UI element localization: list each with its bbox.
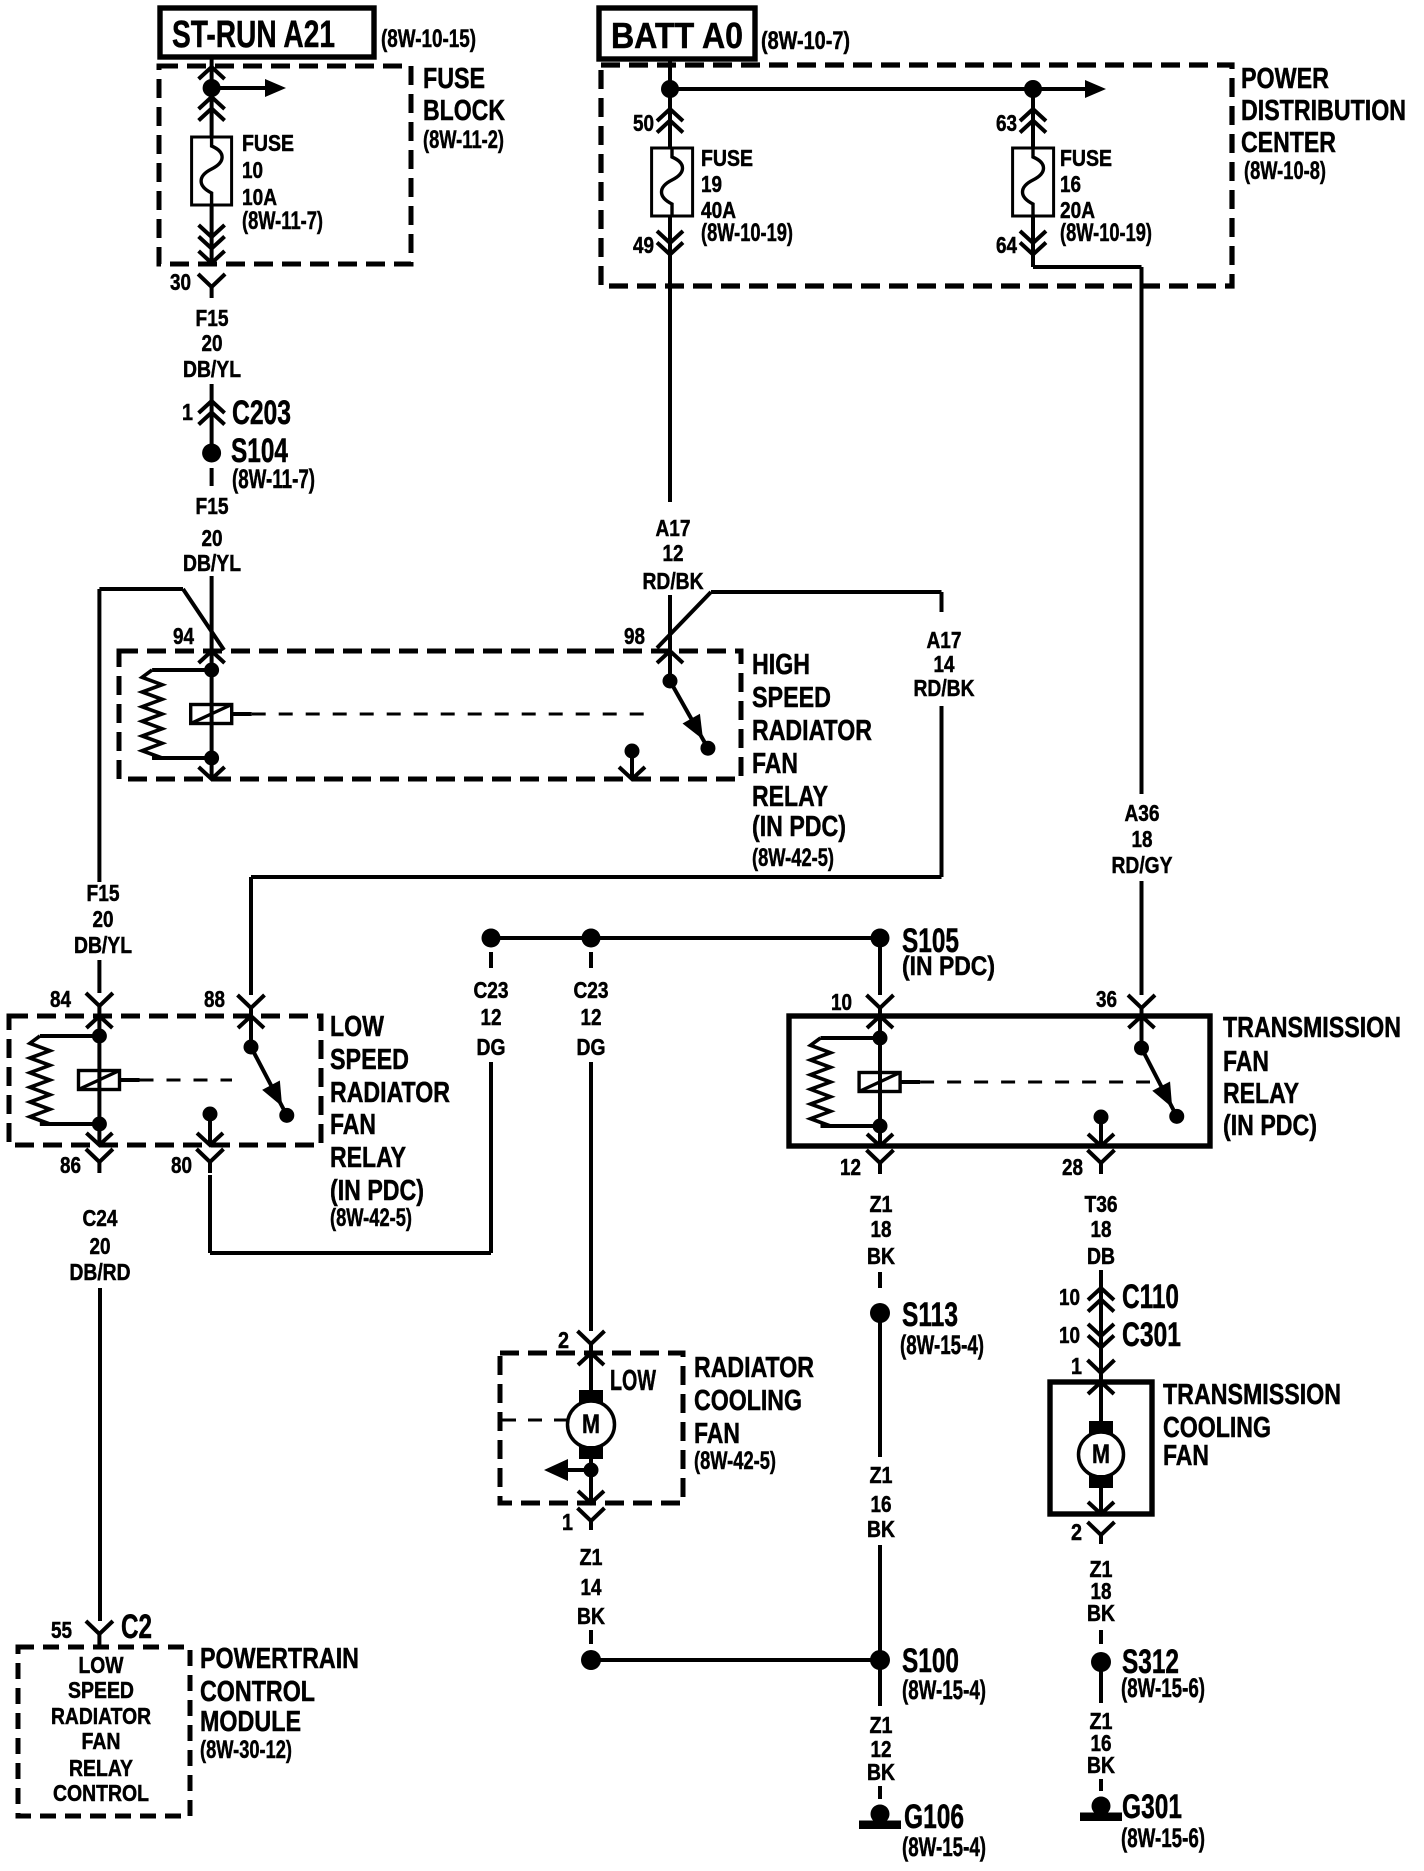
svg-text:F15: F15: [196, 305, 229, 331]
svg-text:TRANSMISSION: TRANSMISSION: [1163, 1379, 1341, 1411]
svg-text:RD/BK: RD/BK: [914, 675, 975, 701]
svg-text:S113: S113: [902, 1296, 958, 1334]
svg-text:55: 55: [51, 1617, 72, 1643]
svg-text:SPEED: SPEED: [330, 1044, 409, 1076]
svg-text:M: M: [1092, 1439, 1110, 1469]
svg-text:LOW: LOW: [610, 1365, 656, 1397]
svg-text:RD/GY: RD/GY: [1112, 852, 1173, 878]
svg-text:(8W-10-19): (8W-10-19): [1060, 219, 1152, 247]
svg-text:TRANSMISSION: TRANSMISSION: [1223, 1012, 1401, 1044]
svg-text:1: 1: [182, 399, 193, 425]
svg-text:BK: BK: [867, 1243, 895, 1269]
svg-text:DB: DB: [1087, 1243, 1115, 1269]
svg-text:C110: C110: [1122, 1278, 1179, 1316]
svg-text:Z1: Z1: [870, 1712, 893, 1738]
svg-text:COOLING: COOLING: [694, 1385, 802, 1417]
svg-text:2: 2: [1071, 1519, 1082, 1545]
svg-text:BK: BK: [1087, 1600, 1115, 1626]
svg-text:(8W-10-8): (8W-10-8): [1244, 157, 1326, 185]
svg-text:(8W-10-15): (8W-10-15): [381, 25, 476, 53]
svg-text:FAN: FAN: [694, 1418, 740, 1450]
svg-text:RD/BK: RD/BK: [643, 568, 704, 594]
svg-text:(8W-15-4): (8W-15-4): [902, 1832, 986, 1862]
svg-text:16: 16: [871, 1491, 892, 1517]
svg-text:10: 10: [1059, 1284, 1080, 1310]
svg-text:12: 12: [663, 540, 684, 566]
svg-text:(8W-11-7): (8W-11-7): [242, 207, 323, 235]
svg-text:36: 36: [1096, 986, 1117, 1012]
svg-text:RADIATOR: RADIATOR: [330, 1077, 450, 1109]
svg-text:CONTROL: CONTROL: [200, 1676, 315, 1708]
svg-text:FAN: FAN: [82, 1728, 121, 1754]
svg-text:(8W-11-2): (8W-11-2): [423, 126, 504, 154]
svg-text:20: 20: [202, 330, 223, 356]
svg-text:(8W-42-5): (8W-42-5): [752, 844, 834, 872]
svg-text:F15: F15: [196, 493, 229, 519]
svg-text:20: 20: [93, 906, 114, 932]
svg-text:C203: C203: [232, 394, 291, 432]
svg-text:C2: C2: [121, 1608, 152, 1646]
svg-text:80: 80: [171, 1152, 192, 1178]
svg-text:18: 18: [871, 1216, 892, 1242]
svg-text:FAN: FAN: [1163, 1440, 1209, 1472]
svg-text:DG: DG: [577, 1034, 606, 1060]
svg-text:BK: BK: [867, 1516, 895, 1542]
svg-text:94: 94: [173, 623, 194, 649]
svg-text:14: 14: [581, 1574, 602, 1600]
svg-text:G301: G301: [1122, 1788, 1182, 1826]
svg-text:DB/YL: DB/YL: [183, 550, 241, 576]
svg-text:CONTROL: CONTROL: [53, 1780, 149, 1806]
svg-text:BK: BK: [577, 1603, 605, 1629]
svg-text:BK: BK: [867, 1759, 895, 1785]
svg-text:(IN PDC): (IN PDC): [1223, 1110, 1317, 1142]
svg-text:RADIATOR: RADIATOR: [51, 1703, 151, 1729]
svg-text:C301: C301: [1122, 1316, 1181, 1354]
svg-text:C23: C23: [474, 977, 509, 1003]
svg-text:LOW: LOW: [330, 1011, 384, 1043]
svg-text:98: 98: [624, 623, 645, 649]
svg-text:1: 1: [562, 1509, 573, 1535]
svg-text:10: 10: [831, 989, 852, 1015]
svg-text:DB/YL: DB/YL: [74, 932, 132, 958]
svg-text:M: M: [582, 1409, 600, 1439]
svg-text:10: 10: [242, 157, 263, 183]
svg-text:14: 14: [934, 651, 955, 677]
svg-text:G106: G106: [904, 1798, 964, 1836]
svg-text:DISTRIBUTION: DISTRIBUTION: [1241, 95, 1406, 127]
svg-text:Z1: Z1: [870, 1191, 893, 1217]
svg-text:20: 20: [90, 1233, 111, 1259]
svg-text:DB/RD: DB/RD: [70, 1259, 131, 1285]
svg-text:18: 18: [1091, 1216, 1112, 1242]
svg-text:(8W-15-4): (8W-15-4): [900, 1330, 984, 1360]
svg-text:C23: C23: [574, 977, 609, 1003]
svg-text:BLOCK: BLOCK: [423, 95, 505, 127]
svg-text:POWER: POWER: [1241, 63, 1329, 95]
svg-text:28: 28: [1062, 1154, 1083, 1180]
svg-text:Z1: Z1: [580, 1544, 603, 1570]
svg-text:84: 84: [50, 986, 71, 1012]
svg-text:RADIATOR: RADIATOR: [752, 715, 872, 747]
svg-text:(8W-42-5): (8W-42-5): [694, 1447, 776, 1475]
svg-text:(IN PDC): (IN PDC): [752, 811, 846, 843]
svg-text:(8W-30-12): (8W-30-12): [200, 1736, 292, 1764]
svg-text:POWERTRAIN: POWERTRAIN: [200, 1643, 359, 1675]
svg-text:(8W-11-7): (8W-11-7): [232, 464, 315, 494]
svg-text:(8W-42-5): (8W-42-5): [330, 1204, 412, 1232]
svg-text:1: 1: [1071, 1353, 1082, 1379]
svg-text:88: 88: [204, 986, 225, 1012]
svg-text:49: 49: [633, 232, 654, 258]
svg-text:FUSE: FUSE: [701, 145, 753, 171]
svg-text:LOW: LOW: [79, 1652, 124, 1678]
svg-text:(8W-15-4): (8W-15-4): [902, 1675, 986, 1705]
svg-text:12: 12: [840, 1154, 861, 1180]
svg-text:SPEED: SPEED: [752, 682, 831, 714]
svg-text:2: 2: [558, 1327, 569, 1353]
svg-text:RELAY: RELAY: [330, 1142, 406, 1174]
svg-text:BK: BK: [1087, 1752, 1115, 1778]
svg-text:RADIATOR: RADIATOR: [694, 1352, 814, 1384]
svg-text:30: 30: [170, 269, 191, 295]
svg-text:(8W-15-6): (8W-15-6): [1121, 1673, 1205, 1703]
svg-text:F15: F15: [87, 880, 120, 906]
svg-text:10: 10: [1059, 1322, 1080, 1348]
svg-text:ST-RUN A21: ST-RUN A21: [172, 14, 335, 56]
svg-text:FAN: FAN: [330, 1109, 376, 1141]
svg-text:FAN: FAN: [1223, 1046, 1269, 1078]
svg-text:63: 63: [996, 110, 1017, 136]
svg-text:A17: A17: [927, 627, 962, 653]
svg-text:MODULE: MODULE: [200, 1706, 301, 1738]
svg-text:12: 12: [581, 1004, 602, 1030]
svg-text:(8W-10-19): (8W-10-19): [701, 219, 793, 247]
svg-text:C24: C24: [83, 1205, 118, 1231]
svg-text:20: 20: [202, 525, 223, 551]
svg-text:86: 86: [60, 1152, 81, 1178]
svg-text:(8W-15-6): (8W-15-6): [1121, 1823, 1205, 1853]
svg-text:DG: DG: [477, 1034, 506, 1060]
svg-text:RELAY: RELAY: [69, 1755, 133, 1781]
svg-text:(IN PDC): (IN PDC): [330, 1175, 424, 1207]
svg-text:19: 19: [701, 171, 722, 197]
svg-text:HIGH: HIGH: [752, 649, 810, 681]
svg-text:RELAY: RELAY: [752, 781, 828, 813]
svg-text:RELAY: RELAY: [1223, 1078, 1299, 1110]
svg-text:FUSE: FUSE: [423, 63, 485, 95]
svg-text:(8W-10-7): (8W-10-7): [761, 27, 850, 55]
svg-text:DB/YL: DB/YL: [183, 356, 241, 382]
svg-text:16: 16: [1060, 171, 1081, 197]
svg-text:T36: T36: [1085, 1191, 1118, 1217]
svg-text:CENTER: CENTER: [1241, 127, 1336, 159]
svg-text:FUSE: FUSE: [1060, 145, 1112, 171]
svg-text:SPEED: SPEED: [68, 1677, 134, 1703]
svg-text:BATT A0: BATT A0: [611, 15, 743, 56]
svg-text:FAN: FAN: [752, 748, 798, 780]
svg-text:A36: A36: [1125, 800, 1160, 826]
svg-text:64: 64: [996, 232, 1017, 258]
svg-text:Z1: Z1: [870, 1462, 893, 1488]
svg-text:12: 12: [481, 1004, 502, 1030]
svg-text:50: 50: [633, 110, 654, 136]
svg-text:A17: A17: [656, 515, 691, 541]
svg-text:FUSE: FUSE: [242, 130, 294, 156]
svg-text:(IN PDC): (IN PDC): [902, 951, 995, 981]
svg-text:18: 18: [1132, 826, 1153, 852]
